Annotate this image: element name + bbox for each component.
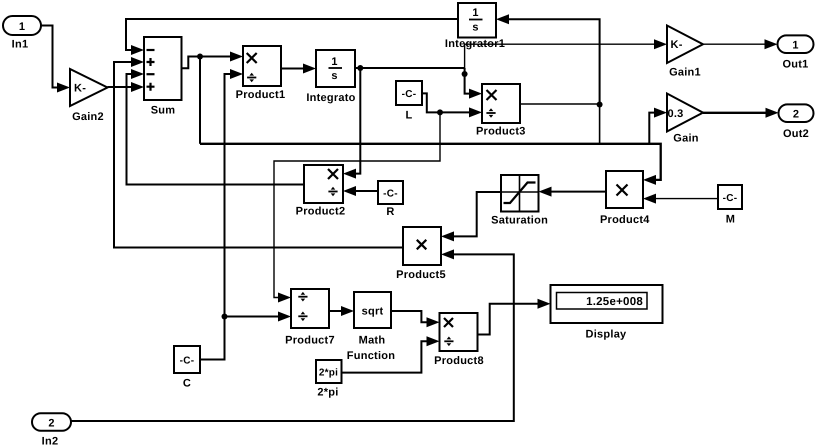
saturation Saturation [491,175,548,227]
svg-text:L: L [406,110,413,122]
junction at Sum output branch [197,54,203,60]
svg-text:2*pi: 2*pi [317,387,338,399]
arrow into Math Function [341,306,354,316]
constant M [718,185,742,226]
integrator Integrator1 [445,3,505,50]
svg-text:Display: Display [586,329,628,341]
svg-text:Sum: Sum [151,105,176,117]
outport Out1 [778,35,814,70]
svg-text:Out1: Out1 [782,59,808,71]
junction on Product3 output vertical [597,102,603,108]
arrow into Product8 input1 [427,317,440,327]
svg-text:2*pi: 2*pi [319,367,338,378]
wire vertical x600 down to y144 line [599,104,601,144]
svg-text:-C-: -C- [402,89,417,100]
svg-text:R: R [386,206,394,218]
wire Integrator output trunk [355,67,465,69]
svg-text:C: C [183,378,191,390]
sum block Sum [144,37,182,117]
constant R [378,181,403,218]
arrow into Product4 input2 (left pointing) [643,194,656,204]
arrow into Product1 input2 [230,69,243,79]
arrow into Product8 input2 [427,336,440,346]
svg-text:1.25e+008: 1.25e+008 [586,296,643,308]
svg-text:-C-: -C- [180,355,195,366]
arrow into Product2 input2 (left pointing) [343,186,356,196]
arrow into Integrator1 (left pointing) [496,14,509,24]
wire Sum output to Product1 input1 [182,57,232,69]
svg-text:In2: In2 [42,436,59,446]
wire Product3 output to vertical x600 [520,103,600,105]
wire C to Product1 input2 [201,74,232,360]
wire M to Product4 input2 [655,198,718,200]
product Product1 [236,46,286,101]
arrow into Product7 input1 [278,293,291,303]
wire Product5 output to Sum input2 [114,62,403,248]
arrow into Product5 input1 (left pointing) [441,231,454,241]
math function sqrt [347,292,395,362]
svg-text:2: 2 [48,418,54,430]
svg-text:K-: K- [74,83,86,95]
arrow into Integrator [303,64,316,74]
wire Gain1 to Out1 [703,43,765,45]
wire Gain to Out2 [703,112,766,114]
svg-text:Product2: Product2 [296,206,346,218]
svg-text:0.3: 0.3 [668,108,684,120]
arrow into Product7 input2 [278,312,291,322]
wire In2 to Product5 input2 [71,254,514,421]
arrow into Product5 input2 (left pointing) [441,249,454,259]
wire Integrator1 output to Sum input1 [126,19,458,50]
svg-text:1: 1 [19,21,25,33]
wire L to Product3 input2 [422,93,470,112]
arrow into Gain1 [654,39,667,49]
arrow into Out2 [766,108,779,118]
arrow into Display [538,299,551,309]
wire 2*pi to Product8 input2 [342,341,429,372]
gain Gain2 [70,69,108,123]
svg-text:2: 2 [793,109,799,121]
ARROWHEADS [57,14,779,346]
wire Product2 output to Sum input3 [127,74,305,185]
constant 2*pi [316,360,342,399]
wire Saturation output to Product5 input1 [453,192,501,236]
arrow into Saturation (left pointing) [539,187,552,197]
wire Gain2 to Sum input4 [108,86,133,88]
svg-text:K-: K- [671,39,683,51]
arrow into Product3 input1 [469,89,482,99]
product Product8 [434,313,484,367]
junction at Integrator output branch [357,65,363,71]
svg-text:Product1: Product1 [236,89,286,101]
svg-text:M: M [726,214,735,226]
wire In1 to Gain2 [41,26,58,88]
product Product4 (mirrored) [600,171,650,226]
svg-text:1: 1 [792,40,798,52]
product Product2 (mirrored) [296,165,346,218]
svg-text:Gain2: Gain2 [72,111,104,123]
inport In1 [3,16,41,51]
integrator Integrator [306,50,355,104]
display Display [551,285,663,341]
gain Gain (0.3) [667,94,703,145]
constant L [396,81,422,122]
svg-text:s: s [472,22,478,34]
wire Product8 output to Display [478,304,539,335]
wire branch L to Product7 input1 [274,112,440,297]
wire R to Product2 input2 [355,190,378,192]
svg-text:Product7: Product7 [285,335,335,347]
arrow into Out1 [765,39,778,49]
arrow into Sum input4 [131,82,144,92]
inport In2 [32,413,71,446]
wire Product1 to Integrator [281,68,304,70]
constant C [174,346,200,390]
svg-text:Product5: Product5 [396,269,446,281]
arrow into Sum input1 [131,45,144,55]
arrow into Product4 input1 (left pointing) [643,175,656,185]
arrow into Sum input2 [131,57,144,67]
wire branch to Product2 input1 [355,68,360,174]
arrow into Gain2 [57,83,70,93]
wire branch up to Gain input [649,113,655,144]
svg-text:-C-: -C- [723,193,738,204]
svg-text:In1: In1 [12,39,29,51]
wire Product7 to Math Function [329,310,342,312]
wire vertical x600 up to Integrator1 input [508,19,600,104]
wire Math Function to Product8 input1 [391,311,428,322]
wire branch C to Product7 input2 [225,316,280,318]
svg-text:Math: Math [359,335,386,347]
junction on C wire [222,314,228,320]
product Product3 [476,84,526,138]
svg-text:sqrt: sqrt [362,306,384,318]
svg-text:Product4: Product4 [600,214,650,226]
arrow into Gain [654,108,667,118]
junction on L wire [437,109,443,115]
product Product5 (mirrored) [396,227,446,281]
outport Out2 [779,104,814,140]
svg-text:-C-: -C- [383,188,398,199]
svg-text:Gain: Gain [673,133,698,145]
gain Gain1 [667,26,703,79]
svg-text:Saturation: Saturation [491,215,548,227]
product Product7 [285,289,335,347]
svg-text:1: 1 [331,56,337,68]
arrow into Product3 input2 [469,107,482,117]
wire long feedback line y144 to Product4 input1 [200,144,661,180]
wire branch Sum output down [199,57,201,144]
junction at Gain1/Product3 branch [462,71,468,77]
wire branch up to Gain1 [465,44,655,68]
svg-text:1: 1 [472,7,478,19]
arrow into Product2 input1 (left pointing) [343,169,356,179]
svg-text:Function: Function [347,350,395,362]
svg-text:Product3: Product3 [476,126,526,138]
wire branch down to Product3 input1 [465,68,470,94]
svg-text:Gain1: Gain1 [669,67,701,79]
wire Product4 output to Saturation input [550,191,606,193]
svg-text:s: s [331,70,337,82]
svg-text:Integrato: Integrato [306,92,355,104]
arrow into Sum input3 [131,69,144,79]
svg-text:Out2: Out2 [783,128,809,140]
svg-text:Integrator1: Integrator1 [445,38,505,50]
arrow into Product1 input1 [230,52,243,62]
svg-text:Product8: Product8 [434,355,484,367]
